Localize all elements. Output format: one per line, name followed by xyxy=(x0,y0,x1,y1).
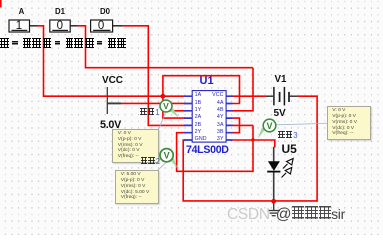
probe 1 xyxy=(160,100,179,118)
watermark CSDN @电子张sir xyxy=(227,206,345,224)
battery V1 xyxy=(266,87,297,106)
junction node A xyxy=(161,94,166,99)
label V1 xyxy=(275,74,287,85)
probe leader lines xyxy=(158,113,327,170)
wire A switch output xyxy=(30,25,186,96)
switch D0 box xyxy=(91,20,113,32)
wire probe1 node to pin 1Y xyxy=(166,110,185,112)
wire 3A to node 3Y xyxy=(233,125,254,139)
switch D1 value 0 xyxy=(50,20,70,32)
label D1 xyxy=(52,7,68,16)
ground xyxy=(267,201,280,215)
svg-text:V: V xyxy=(266,121,272,131)
crop mark top-left xyxy=(0,0,2,8)
wire 3Y to LED xyxy=(233,139,275,147)
wire D1 switch output xyxy=(70,25,254,111)
switch A value 1 xyxy=(9,20,29,32)
wire 4Y to 3B xyxy=(233,117,241,132)
label probe2 xyxy=(141,157,161,166)
label 5.0V xyxy=(100,119,121,131)
switch D1 box xyxy=(50,20,70,32)
chip pin names right column xyxy=(205,92,224,143)
op IC U1 74LS00D body xyxy=(184,91,233,143)
LED U5 xyxy=(267,147,280,202)
label D0 xyxy=(97,7,113,16)
probe info box 2 xyxy=(115,170,159,204)
probe 2 xyxy=(160,149,177,169)
wire VCC to pin 1B xyxy=(121,102,185,104)
key binding text D0 xyxy=(85,38,126,51)
key binding text A xyxy=(0,38,41,51)
switch D0 value 0 xyxy=(91,20,112,32)
junction LED bottom rail xyxy=(271,199,276,204)
label probe1 xyxy=(140,108,160,117)
wire GND pin to bottom rail xyxy=(182,139,317,201)
chip pin names left column xyxy=(195,92,207,143)
wire D0 switch output xyxy=(113,25,185,125)
junction 3Y node xyxy=(251,138,254,141)
label VCC xyxy=(102,75,123,86)
wire 2Y loop to 3Y node xyxy=(176,132,253,172)
svg-text:V: V xyxy=(163,101,169,111)
wire node A loop to pins 2A and 4A xyxy=(162,75,240,119)
svg-text:V: V xyxy=(164,151,170,161)
probe info box 3 xyxy=(327,106,371,141)
label 74LS00D xyxy=(186,144,229,156)
wire VCC pin to battery V1 xyxy=(233,95,266,97)
label probe3 xyxy=(278,131,298,140)
VCC power symbol xyxy=(107,87,121,114)
label A xyxy=(14,7,29,16)
probe info box 1 xyxy=(112,129,159,163)
LED arrows xyxy=(282,159,294,178)
probe 3 xyxy=(258,119,276,139)
key binding text D1 xyxy=(43,38,84,51)
label 5V xyxy=(274,108,286,119)
wire battery right to bottom rail xyxy=(297,95,317,201)
switch A box xyxy=(9,20,30,32)
label U1 xyxy=(200,75,214,87)
label U5 xyxy=(282,142,297,156)
